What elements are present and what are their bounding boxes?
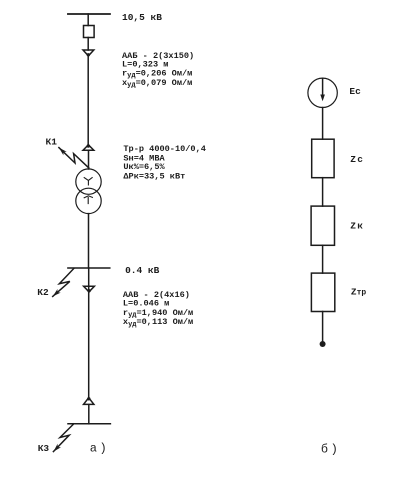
wire Ztr to terminal node [322, 312, 324, 342]
svg-text:К2: К2 [37, 287, 49, 298]
impedance Zc box [312, 139, 334, 178]
svg-text:Zс: Zс [350, 154, 364, 165]
fault K3 lightning arrow [53, 424, 73, 452]
fault K1 lightning arrow [59, 148, 89, 168]
breaker QF1 [84, 26, 95, 38]
cable W2 label block [123, 290, 193, 329]
wire to end bar [88, 405, 90, 424]
end bar (load bus) [68, 423, 110, 425]
transformer T1 primary winding [76, 169, 101, 194]
wire transformer to 0,4 kV bus [88, 214, 90, 268]
svg-text:К3: К3 [38, 443, 50, 454]
svg-text:10,5 кВ: 10,5 кВ [122, 12, 162, 23]
svg-text:Ес: Ес [349, 86, 361, 97]
cable termination (below 0,4 bus, apex down) [84, 286, 95, 292]
fault K2 lightning arrow [53, 268, 74, 296]
source Ec circle [308, 78, 337, 107]
svg-text:Zк: Zк [350, 220, 364, 231]
wire cable W2 [88, 268, 90, 397]
cable termination (top, apex down) [83, 50, 94, 56]
impedance Ztr box [311, 273, 334, 311]
wire Zc to Zk [322, 178, 324, 206]
terminal node (filled dot) [320, 341, 326, 347]
wire breaker to cable end [87, 38, 89, 51]
wire bus to breaker [87, 14, 89, 26]
svg-text:0.4 кВ: 0.4 кВ [125, 265, 160, 276]
cable termination (above transformer, apex up) [83, 145, 94, 150]
svg-text:ΔPк=33,5 кВт: ΔPк=33,5 кВт [123, 171, 185, 181]
svg-text:а): а) [90, 442, 109, 456]
bus 10,5 kV [68, 13, 110, 15]
transformer T1 secondary winding [76, 188, 101, 213]
wire cable W1 [87, 57, 89, 145]
wire Zk to Ztr [322, 245, 324, 273]
transformer T1 label block [123, 144, 206, 181]
cable W1 label block [122, 51, 194, 90]
wire to transformer [88, 150, 90, 169]
transformer T1 primary wye symbol [84, 178, 92, 185]
wire Ec to Zc [322, 108, 324, 140]
svg-text:К1: К1 [46, 136, 58, 147]
impedance Zk box [311, 206, 334, 245]
cable termination (bottom, apex up) [84, 398, 94, 405]
svg-text:Zтр: Zтр [351, 286, 367, 297]
bus 0,4 kV [68, 267, 110, 269]
source Ec internal arrow [322, 78, 324, 98]
svg-text:б): б) [321, 443, 340, 457]
transformer T1 secondary wye symbol [84, 196, 92, 204]
